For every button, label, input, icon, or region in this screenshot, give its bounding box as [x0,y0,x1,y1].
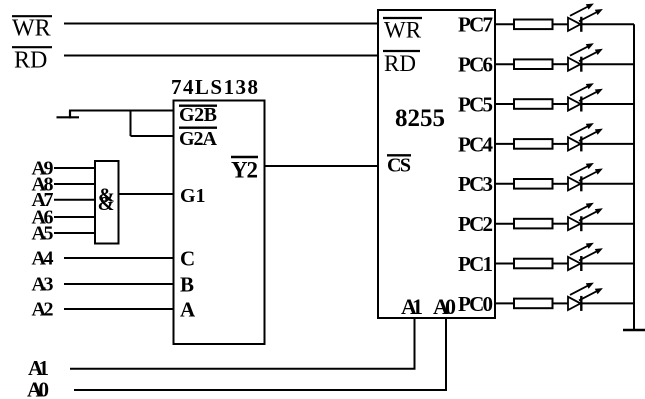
LED D7 [568,243,603,271]
svg-text:A0: A0 [27,378,49,399]
svg-text:PC5: PC5 [458,92,493,116]
ground terminal [623,329,645,331]
svg-text:8255: 8255 [395,105,445,132]
wire resistor R5 to LED D5 anode [553,183,569,185]
svg-text:A2: A2 [32,299,54,321]
wire PC1 pin to resistor R7 [495,263,514,265]
wire resistor R8 to LED D8 anode [553,302,569,304]
svg-text:G1: G1 [180,185,206,207]
svg-text:A1: A1 [28,356,49,380]
svg-text:PC3: PC3 [458,172,493,196]
LED D2 [568,43,603,71]
wire A7 to and-gate [54,199,95,201]
wire PC5 pin to resistor R3 [495,103,514,105]
wire A1 pin down [414,318,416,369]
wire A5 to and-gate [54,232,95,234]
resistor R8 [514,299,553,309]
wire resistor R1 to LED D1 anode [553,23,569,25]
wire PC7 pin to resistor R1 [495,23,514,25]
decoder U1 74LS138 body [174,101,265,345]
wire A8 to and-gate [54,183,95,185]
svg-text:RD: RD [14,48,47,74]
svg-text:PC6: PC6 [458,53,493,77]
wire A9 to and-gate [54,167,95,169]
wire resistor R2 to LED D2 anode [553,63,569,65]
wire to G2B pin [69,110,174,112]
common cathode bus wire (right vertical) [633,24,635,330]
resistor R1 [514,20,553,30]
wire Y2 output to CS of 8255 [265,165,379,167]
wire PC4 pin to resistor R4 [495,143,514,145]
resistor R5 [514,179,553,189]
svg-text:C: C [180,247,195,271]
wire LED D6 cathode to common bus [581,223,634,225]
svg-text:PC2: PC2 [458,212,493,236]
LED D8 [568,283,603,311]
wire PC2 pin to resistor R6 [495,223,514,225]
wire A1 horizontal [70,368,416,370]
net WR label (top left) [12,16,52,42]
svg-text:WR: WR [384,18,422,43]
svg-text:&: & [98,193,115,215]
and-gate U3 body [95,161,119,244]
resistor R2 [514,59,553,69]
svg-text:PC0: PC0 [458,292,493,316]
svg-text:CS: CS [387,155,411,177]
wire A2 to pin A [64,308,174,310]
wire RD to 8255 [64,55,378,57]
wire and-gate output to G1 [119,193,175,195]
wire resistor R4 to LED D4 anode [553,143,569,145]
wire A6 to and-gate [54,216,95,218]
resistor R7 [514,259,553,269]
resistor R3 [514,99,553,109]
and-gate U3 ampersand symbol [98,185,115,216]
resistor R6 [514,219,553,229]
LED D4 [568,123,603,151]
wire LED D7 cathode to common bus [581,263,634,265]
resistor R4 [514,139,553,149]
wire branch down to G2A pin [131,111,175,137]
wire LED D8 cathode to common bus [581,302,634,304]
svg-text:WR: WR [12,16,51,42]
wire WR to 8255 [64,23,378,25]
wire PC3 pin to resistor R5 [495,183,514,185]
pin CS label of U2 [387,155,411,177]
wire LED D4 cathode to common bus [581,143,634,145]
pin RD label of U2 [383,51,420,76]
svg-text:PC7: PC7 [458,13,493,37]
ppi U2 8255 body [378,10,495,318]
svg-text:A: A [180,298,196,322]
pin WR label of U2 [383,18,422,43]
wire resistor R6 to LED D6 anode [553,223,569,225]
svg-text:A4: A4 [32,248,54,270]
wire A3 to pin B [64,283,174,285]
LED D6 [568,203,603,231]
pin G2B label of U1 [179,104,217,126]
svg-text:Y2: Y2 [231,158,258,183]
pin G2A label of U1 [179,128,218,150]
LED D5 [568,163,603,191]
svg-text:G2A: G2A [179,128,218,150]
svg-text:RD: RD [384,51,416,76]
net RD label (top left) [12,47,52,73]
wire A0 horizontal [74,389,447,391]
wire resistor R3 to LED D3 anode [553,103,569,105]
wire LED D2 cathode to common bus [581,63,634,65]
wire resistor R7 to LED D7 anode [553,263,569,265]
svg-text:A3: A3 [32,274,54,296]
wire LED D1 cathode to common bus [581,23,634,25]
wire PC0 pin to resistor R8 [495,302,514,304]
LED D3 [568,83,603,111]
wire LED D3 cathode to common bus [581,103,634,105]
pin Y2 output label of U1 [231,157,258,183]
svg-text:A1: A1 [401,294,423,319]
svg-text:74LS138: 74LS138 [171,75,258,99]
svg-text:A5: A5 [32,222,54,244]
wire PC6 pin to resistor R2 [495,63,514,65]
wire LED D5 cathode to common bus [581,183,634,185]
svg-text:G2B: G2B [179,104,217,126]
LED D1 [568,4,603,32]
svg-text:A0: A0 [433,294,456,319]
svg-text:B: B [180,273,194,297]
svg-text:PC4: PC4 [458,132,494,156]
svg-text:PC1: PC1 [458,252,493,276]
input terminal tick at G2B wire [57,111,80,119]
wire A4 to pin C [64,257,174,259]
wire A0 pin down [445,318,447,391]
